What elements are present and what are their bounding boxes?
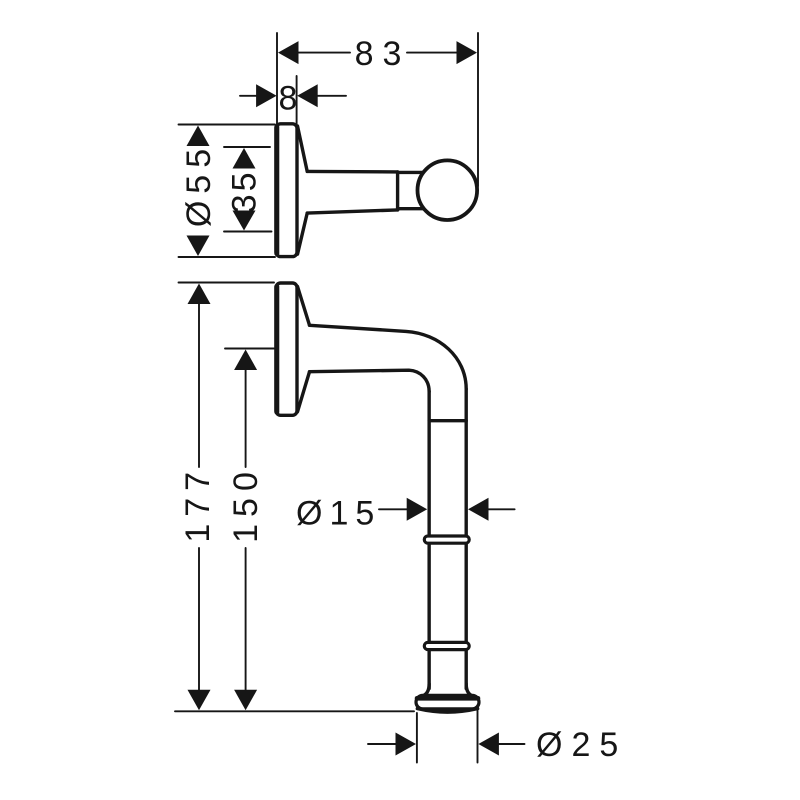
svg-text:Ø15: Ø15 — [296, 495, 381, 533]
holder wall plate — [276, 283, 297, 415]
dim 35 down arrowhead — [233, 211, 256, 231]
dim d55 up arrowhead — [187, 126, 210, 147]
dim d25 right tail line — [498, 743, 525, 745]
hook stem bottom edge — [307, 210, 397, 213]
dim d55 bottom extension line — [179, 256, 276, 258]
dim 8 right tail line — [317, 95, 346, 97]
dim 150 line upper segment — [245, 367, 247, 467]
dim d15 leader line — [379, 508, 408, 510]
hook wall plate mounting face (thicker left edge) — [274, 127, 279, 254]
hook ball end — [418, 160, 478, 220]
dim 177 top extension line — [179, 282, 275, 284]
dim 83 left extension line — [276, 33, 278, 125]
holder cone top slant — [298, 287, 310, 326]
dim d25 left arrowhead — [396, 733, 417, 756]
holder tube right wall — [465, 389, 468, 689]
hook stem top edge — [307, 170, 397, 174]
holder ring 2 — [424, 642, 469, 649]
dim 8 right arrowhead — [297, 84, 318, 107]
svg-text:83: 83 — [355, 35, 411, 73]
dim 177 line lower segment — [198, 548, 200, 692]
dim d15 left arrowhead — [407, 498, 428, 521]
dim d25 right extension line — [477, 710, 479, 763]
dim 35 bottom extension line — [224, 231, 272, 233]
svg-text:Ø25: Ø25 — [536, 726, 627, 764]
dim d25 right arrowhead — [478, 733, 499, 756]
svg-text:8: 8 — [279, 80, 298, 118]
dim 177 line upper segment — [198, 301, 200, 467]
hook stem/neck joint — [396, 172, 399, 210]
holder tube bottom edge + inner bend — [310, 370, 430, 391]
dim 150 down arrowhead — [234, 690, 257, 711]
hook neck bottom edge — [398, 207, 425, 210]
holder tube joint line — [429, 419, 466, 422]
dim 150 up arrowhead — [234, 350, 257, 371]
dim d15 right arrowhead — [468, 498, 489, 521]
holder ring 1 — [424, 536, 469, 543]
dim 8 left arrowhead — [256, 84, 277, 107]
dim 177 down arrowhead — [188, 690, 211, 711]
hook cone top slant — [298, 126, 308, 171]
dim d55 down arrowhead — [187, 236, 210, 257]
dim 35 top extension line — [224, 146, 270, 148]
dim d25 left tail line — [368, 743, 397, 745]
holder wall plate mounting face (thicker left edge) — [274, 287, 279, 413]
dim d25 left extension line — [416, 713, 418, 763]
dim 83 left arrowhead — [278, 41, 299, 64]
dim 8 left tail line — [240, 95, 257, 97]
dim 8 right extension line — [296, 76, 298, 125]
dim 177 up arrowhead — [188, 284, 211, 305]
dim d15 right tail line — [486, 508, 515, 510]
dim 150 line lower segment — [245, 548, 247, 692]
holder foot top rim — [417, 696, 478, 701]
hook wall plate — [276, 124, 297, 257]
svg-text:177: 177 — [179, 465, 217, 543]
hook cone bottom slant — [298, 213, 308, 254]
holder tube top edge + outer bend — [310, 325, 467, 389]
svg-text:150: 150 — [227, 465, 265, 543]
dim 83 right arrowhead — [457, 41, 478, 64]
holder cone bottom slant — [298, 372, 310, 412]
holder foot bottom rim — [418, 709, 478, 713]
dim 150 top extension line — [225, 348, 274, 350]
dim 83 line right segment — [407, 52, 458, 54]
dim 35 up arrowhead — [233, 148, 256, 169]
holder tube left wall — [427, 392, 430, 689]
dim d55 top extension line — [179, 124, 276, 126]
svg-text:Ø55: Ø55 — [180, 142, 218, 227]
bottom shared extension line — [175, 710, 414, 712]
hook neck top edge — [398, 171, 425, 174]
holder foot body — [416, 695, 479, 709]
dim 83 right extension line — [477, 33, 479, 186]
svg-text:35: 35 — [226, 169, 264, 213]
holder foot flare left — [421, 684, 429, 697]
holder foot flare right — [466, 684, 474, 697]
dim 83 line left segment — [298, 52, 350, 54]
